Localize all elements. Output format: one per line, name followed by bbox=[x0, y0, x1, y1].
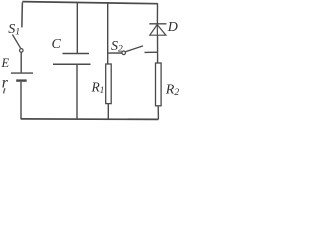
wire: R1 branch from resistor bottom down to bottom border bbox=[107, 104, 109, 119]
svg-text:D: D bbox=[167, 20, 178, 35]
svg-text:E: E bbox=[1, 56, 10, 70]
diode D triangle (anode, pointing up) bbox=[150, 25, 166, 36]
switch S1 blade (open, tilted up-left) bbox=[12, 35, 20, 49]
battery E,r : long (positive) plate bbox=[11, 72, 33, 74]
wire: capacitor branch from top border down to capacitor top plate bbox=[76, 3, 78, 54]
resistor R1 box bbox=[106, 64, 112, 104]
svg-text:C: C bbox=[52, 37, 62, 52]
wire: R1 branch from top border down to resistor R1 bbox=[107, 3, 109, 64]
wire: right branch from top-right corner down to diode cathode bar bbox=[156, 3, 158, 23]
diode D cathode bar bbox=[149, 23, 166, 25]
wire: top border from left branch to right branch bbox=[22, 2, 157, 4]
switch S1 pivot circle bbox=[20, 49, 24, 53]
wire: right branch short segment through diode center bbox=[156, 24, 158, 35]
wire: bottom border from left branch to right branch bbox=[21, 118, 159, 121]
wire: S2 horizontal segment from R1 branch to S2 pivot bbox=[108, 52, 122, 54]
wire: S2 horizontal segment from blade contact to R2 branch bbox=[145, 51, 158, 53]
wire: left branch upper segment (top-left corner down to switch S1 terminal) bbox=[21, 3, 24, 28]
capacitor C top plate bbox=[63, 53, 90, 55]
capacitor C bottom plate bbox=[53, 63, 91, 65]
wire: capacitor branch from bottom plate down to bottom border bbox=[76, 65, 78, 119]
stray ink mark below label r bbox=[4, 88, 5, 93]
switch S2 pivot circle bbox=[122, 51, 126, 55]
battery E,r : short thick (negative) plate bbox=[16, 79, 27, 81]
wire: left branch from S1 pivot down to battery positive plate bbox=[20, 52, 22, 72]
wire: left branch from battery negative plate down to bottom-left corner bbox=[20, 82, 22, 120]
resistor R2 box bbox=[156, 63, 162, 106]
wire: right branch from resistor R2 bottom down to bottom-right corner bbox=[157, 106, 159, 120]
wire: right branch from diode anode down to resistor R2 bbox=[157, 35, 159, 63]
switch S2 blade (open, tilted up-right) bbox=[126, 46, 144, 52]
